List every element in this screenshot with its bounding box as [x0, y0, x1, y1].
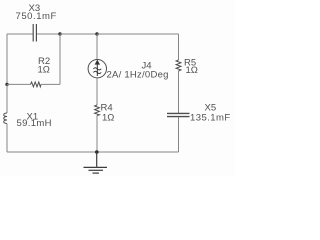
capacitor X5 — [167, 113, 190, 116]
current source J4 — [88, 59, 106, 77]
capacitor X3 — [33, 24, 36, 42]
svg-text:135.1mF: 135.1mF — [190, 113, 231, 124]
wire bottom — [7, 151, 179, 153]
svg-text:59.1mH: 59.1mH — [17, 118, 52, 129]
wire top (node A to node B) — [60, 33, 97, 35]
wire top-left segment (left rail corner to X3 left plate) — [7, 33, 33, 35]
node C junction — [5, 83, 8, 86]
svg-text:2A/ 1Hz/0Deg: 2A/ 1Hz/0Deg — [107, 70, 169, 81]
node B junction — [95, 32, 98, 35]
svg-text:1Ω: 1Ω — [102, 113, 114, 124]
wire R2 row right — [41, 83, 60, 85]
node A junction — [58, 32, 61, 35]
svg-text:1Ω: 1Ω — [186, 65, 198, 76]
wire left rail mid — [6, 84, 8, 113]
wire right rail bottom — [178, 117, 180, 152]
wire right rail mid — [178, 71, 180, 113]
svg-text:1Ω: 1Ω — [38, 65, 50, 76]
resistor R4 — [95, 105, 100, 116]
wire right rail top — [178, 34, 180, 60]
wire top (X3 right plate to node A) — [37, 33, 60, 35]
svg-text:750.1mF: 750.1mF — [16, 11, 57, 22]
resistor R5 — [176, 60, 181, 71]
wire R2 loop right vertical — [59, 34, 61, 84]
resistor R2 — [31, 82, 42, 87]
node D junction — [95, 150, 99, 154]
wire left rail upper — [6, 34, 8, 84]
wire top (node B to right rail corner) — [97, 33, 179, 35]
inductor X1 — [4, 113, 7, 124]
wire left rail lower — [6, 124, 8, 153]
wire R2 row left — [7, 83, 31, 85]
wire source branch mid — [96, 78, 98, 105]
ground — [84, 152, 108, 173]
wire source branch top — [96, 34, 98, 60]
wire source branch bottom — [96, 116, 98, 153]
